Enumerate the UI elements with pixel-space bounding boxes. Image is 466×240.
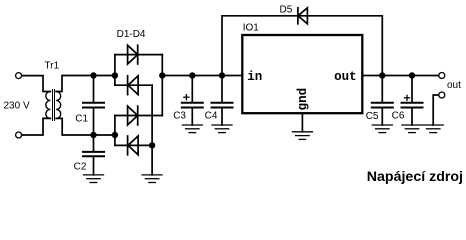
wire bridge right rail: [161, 55, 163, 116]
node DC-: [149, 142, 155, 148]
ground bridge: [142, 175, 162, 183]
wire bridge left rail upper: [114, 55, 116, 86]
wire D5 branch: [222, 16, 382, 76]
svg-text:C5: C5: [366, 111, 379, 122]
capacitor C3: [173, 76, 203, 126]
svg-text:C6: C6: [392, 110, 405, 121]
wire secondary bottom: [56, 118, 115, 135]
op-amp / regulator IO1 box: [242, 35, 362, 113]
diode D3: [128, 106, 138, 125]
node AC1: [112, 72, 118, 78]
diode D3 row wire: [115, 115, 162, 117]
ground C5: [372, 125, 392, 133]
ground C4: [212, 125, 232, 133]
node C5 / D5 tap: [379, 72, 385, 78]
svg-text:out: out: [447, 80, 461, 91]
capacitor C2: [74, 135, 104, 175]
diode D5: [298, 8, 308, 24]
diode D2: [128, 76, 139, 95]
svg-text:C2: C2: [74, 161, 87, 172]
diode D1: [128, 45, 138, 64]
capacitor C5: [366, 76, 393, 126]
ground C2: [84, 175, 104, 183]
svg-text:D5: D5: [280, 5, 293, 16]
wire output minus to ground: [433, 95, 438, 125]
output terminal plus: [439, 73, 445, 79]
ground C6: [402, 125, 422, 133]
node C6: [409, 72, 415, 78]
svg-text:IO1: IO1: [243, 23, 260, 34]
node C3: [189, 72, 195, 78]
ground IO1: [292, 132, 312, 140]
plus C3: [184, 96, 189, 98]
node C1 top: [90, 72, 96, 78]
svg-text:Tr1: Tr1: [45, 60, 60, 71]
transformer Tr1: [45, 60, 61, 120]
input terminal top: [16, 73, 22, 79]
node AC2: [112, 132, 118, 138]
secondary winding: [56, 92, 61, 119]
diode D1 row wire: [115, 54, 162, 56]
capacitor C6: [392, 76, 423, 126]
ground output: [423, 125, 443, 133]
wire primary top: [22, 76, 51, 92]
node C4 / D5 tap: [219, 72, 225, 78]
svg-text:in: in: [247, 70, 262, 84]
svg-text:Napájecí zdroj: Napájecí zdroj: [367, 169, 463, 185]
wire bridge DC- vertical: [151, 85, 153, 175]
wire gnd pin: [301, 114, 303, 132]
output terminal minus: [439, 92, 445, 98]
capacitor C1: [75, 76, 104, 136]
node DC+: [159, 72, 165, 78]
plus C6: [405, 97, 410, 99]
wire primary bottom: [22, 118, 51, 135]
primary winding: [46, 92, 51, 119]
input terminal bottom: [16, 132, 22, 138]
wire secondary top to rail: [56, 76, 115, 92]
wire bridge left rail lower: [114, 116, 116, 146]
svg-text:gnd: gnd: [296, 88, 310, 111]
core: [52, 90, 54, 121]
capacitor C4: [205, 76, 233, 126]
diode D2 row wire: [115, 84, 152, 86]
svg-text:230 V: 230 V: [4, 101, 30, 112]
svg-text:C1: C1: [75, 113, 88, 124]
svg-text:C3: C3: [173, 110, 186, 121]
diode D4 row wire: [115, 144, 152, 146]
node C1 bottom: [90, 132, 96, 138]
svg-text:C4: C4: [205, 110, 218, 121]
svg-text:D1-D4: D1-D4: [117, 29, 146, 40]
wire main rail DC+ to regulator: [162, 75, 242, 77]
svg-text:out: out: [334, 70, 357, 84]
wire out rail: [363, 75, 439, 77]
diode D4: [128, 136, 139, 155]
ground C3: [182, 125, 202, 133]
